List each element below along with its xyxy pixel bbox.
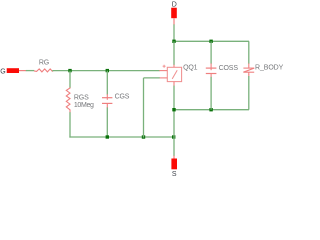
capacitor CGS xyxy=(102,97,112,99)
transistor QQ1 xyxy=(167,67,181,81)
wire COSS bottom lead xyxy=(210,77,212,110)
resistor RG xyxy=(34,69,53,72)
svg-text:R_BODY: R_BODY xyxy=(255,65,284,72)
junction at RGS top xyxy=(68,69,71,72)
junction COSS bottom xyxy=(209,108,212,111)
wire gate stub xyxy=(159,70,167,72)
wire CGS top lead xyxy=(106,71,108,95)
transistor QQ1 plus mark xyxy=(163,65,166,68)
wire S node vertical xyxy=(173,137,175,156)
wire G to RG xyxy=(26,70,35,72)
wire COSS top lead xyxy=(210,41,212,64)
wire source pin stub xyxy=(159,77,167,79)
terminal D xyxy=(171,8,177,19)
capacitor COSS xyxy=(206,67,217,69)
svg-text:D: D xyxy=(172,1,177,8)
svg-text:G: G xyxy=(0,69,5,76)
wire drain to QQ1 xyxy=(173,41,175,65)
junction drain xyxy=(172,40,175,43)
wire D to drain junction xyxy=(173,24,175,41)
junction at CGS top xyxy=(106,69,109,72)
svg-text:QQ1: QQ1 xyxy=(183,65,198,72)
wire QQ1 bottom pin xyxy=(173,82,175,86)
junction QQ1 source xyxy=(172,108,175,111)
junction source wrap xyxy=(142,135,145,138)
junction S node xyxy=(172,135,175,138)
svg-text:RG: RG xyxy=(39,60,49,67)
wire gate rail xyxy=(52,70,159,72)
junction COSS top xyxy=(209,40,212,43)
wire R_BODY top lead xyxy=(248,41,250,64)
wire top rail xyxy=(174,40,249,42)
wire CGS bottom lead xyxy=(106,107,108,137)
wire source wrap horizontal xyxy=(144,77,160,79)
svg-text:RGS: RGS xyxy=(74,94,89,101)
wire bottom rail xyxy=(69,136,174,138)
resistor RGS xyxy=(66,87,70,112)
wire RGS bottom lead xyxy=(69,112,71,137)
svg-text:COSS: COSS xyxy=(219,65,239,72)
terminal S xyxy=(171,159,177,170)
svg-text:CGS: CGS xyxy=(115,94,130,101)
wire R_BODY bottom lead xyxy=(248,74,250,76)
junction CGS bottom xyxy=(106,135,109,138)
diode R_BODY xyxy=(243,68,254,75)
terminal G xyxy=(7,68,19,73)
wire source wrap vertical xyxy=(143,78,145,138)
wire RGS top lead xyxy=(69,71,71,89)
wire source rail xyxy=(174,109,249,111)
svg-text:S: S xyxy=(172,171,177,178)
svg-text:10Meg: 10Meg xyxy=(74,102,94,109)
